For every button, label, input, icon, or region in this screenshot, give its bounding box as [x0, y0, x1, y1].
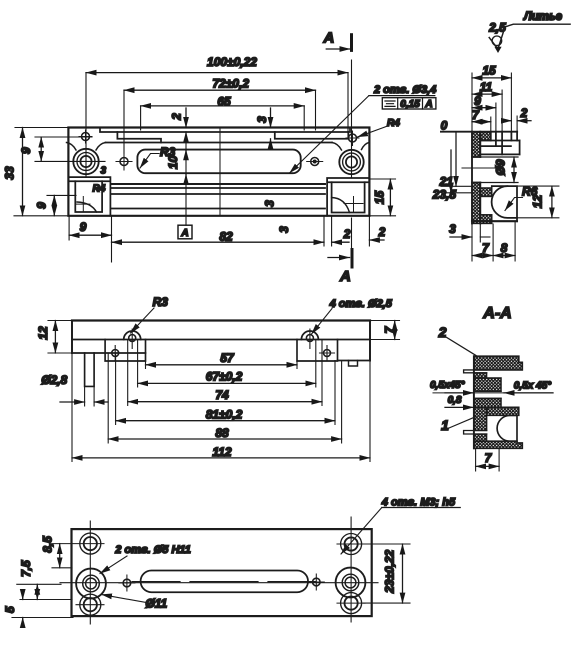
svg-text:1: 1 [441, 417, 449, 433]
svg-text:Литье: Литье [523, 11, 563, 23]
svg-text:12: 12 [531, 195, 545, 209]
svg-text:R4: R4 [387, 118, 400, 129]
svg-text:3: 3 [255, 116, 269, 123]
svg-text:2: 2 [520, 106, 528, 120]
svg-text:23,5: 23,5 [432, 188, 457, 202]
svg-text:33: 33 [3, 166, 17, 180]
svg-text:2: 2 [170, 113, 184, 121]
svg-text:А: А [424, 99, 432, 110]
svg-text:9: 9 [19, 147, 33, 154]
svg-text:А: А [180, 228, 188, 239]
svg-text:10: 10 [166, 155, 180, 169]
svg-text:88: 88 [215, 426, 229, 440]
svg-text:Ø11: Ø11 [145, 597, 167, 611]
svg-text:R4: R4 [93, 184, 106, 195]
svg-text:7,5: 7,5 [19, 560, 33, 577]
svg-text:3: 3 [277, 226, 291, 233]
svg-text:7: 7 [472, 108, 480, 122]
svg-text:12: 12 [36, 326, 50, 340]
svg-text:А-А: А-А [482, 305, 511, 322]
svg-text:2: 2 [438, 324, 447, 340]
svg-text:23±0,22: 23±0,22 [383, 549, 397, 594]
svg-text:7: 7 [482, 241, 490, 255]
svg-text:0,5x 45°: 0,5x 45° [514, 381, 552, 392]
svg-text:0,8: 0,8 [448, 395, 462, 406]
svg-text:9: 9 [474, 94, 481, 108]
svg-text:15: 15 [373, 191, 387, 205]
svg-text:А: А [323, 30, 335, 47]
svg-text:0,5x45°: 0,5x45° [430, 380, 466, 391]
svg-text:74: 74 [215, 388, 229, 402]
svg-text:9: 9 [80, 220, 87, 234]
svg-text:11: 11 [480, 80, 493, 94]
svg-text:9: 9 [35, 202, 49, 209]
svg-text:21: 21 [439, 175, 454, 189]
svg-text:72±0,2: 72±0,2 [212, 77, 249, 91]
svg-text:А: А [339, 268, 351, 285]
svg-text:2: 2 [343, 227, 351, 241]
svg-text:112: 112 [212, 445, 231, 459]
svg-text:82: 82 [219, 230, 233, 244]
svg-text:3: 3 [449, 222, 456, 236]
svg-text:4 отв. Ø2,5: 4 отв. Ø2,5 [329, 298, 393, 310]
svg-text:7: 7 [485, 451, 493, 465]
svg-text:5: 5 [3, 606, 17, 613]
svg-text:8: 8 [501, 241, 508, 255]
svg-text:100±0,22: 100±0,22 [207, 55, 257, 69]
svg-text:Ø2,8: Ø2,8 [41, 373, 67, 387]
svg-text:3: 3 [263, 200, 277, 207]
svg-text:2 отв. Ø5 Н11: 2 отв. Ø5 Н11 [114, 544, 191, 556]
svg-text:67±0,2: 67±0,2 [206, 370, 243, 384]
svg-text:8,5: 8,5 [41, 536, 55, 553]
svg-text:Ø9: Ø9 [494, 159, 508, 175]
svg-text:0: 0 [441, 119, 448, 133]
svg-text:2: 2 [378, 225, 386, 239]
svg-text:15: 15 [482, 64, 496, 78]
svg-text:65: 65 [217, 95, 231, 109]
svg-text:R3: R3 [153, 295, 169, 309]
svg-text:2 отв. Ø3,4: 2 отв. Ø3,4 [373, 84, 436, 96]
svg-text:57: 57 [220, 351, 235, 365]
svg-text:2,5: 2,5 [488, 21, 506, 35]
svg-text:4 отв. М3; h5: 4 отв. М3; h5 [381, 497, 456, 509]
svg-text:0,15: 0,15 [400, 99, 420, 110]
svg-text:3: 3 [101, 166, 107, 177]
svg-text:81±0,2: 81±0,2 [206, 408, 243, 422]
